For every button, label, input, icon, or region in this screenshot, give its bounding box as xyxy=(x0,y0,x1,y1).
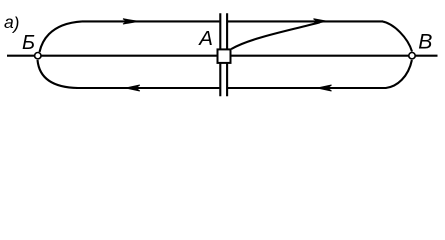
wire: top horizontal conductor, right segment (from right plate) xyxy=(228,20,383,22)
capacitor plate left (vertical bar through figure) xyxy=(219,13,221,96)
arrow: current direction on top conductor (rightward) xyxy=(123,19,139,24)
wire: bottom-left corner arc from node Б down to bottom conductor xyxy=(38,60,79,88)
svg-text:Б: Б xyxy=(22,32,35,54)
wire: middle horizontal conductor from left edge through A to right edge xyxy=(7,55,438,57)
wire: top-right corner arc from top conductor down to node В xyxy=(382,21,412,51)
svg-text:а: а xyxy=(4,12,14,32)
arrow: current direction at end of jumper curve (rightward) xyxy=(314,19,328,24)
node Б terminal circle xyxy=(35,53,41,59)
node В terminal circle xyxy=(409,53,415,59)
svg-text:А: А xyxy=(197,27,213,50)
svg-text:): ) xyxy=(12,13,20,33)
svg-text:В: В xyxy=(418,31,432,54)
arrow: current direction on bottom conductor right (leftward) xyxy=(318,85,332,91)
wire: curved jumper from box A to top conductor xyxy=(231,22,320,49)
arrow: current direction on bottom conductor left (leftward) xyxy=(126,85,140,91)
wire: top-left corner arc from node Б up to top conductor xyxy=(40,21,83,52)
element box at node A (small square) xyxy=(218,49,231,63)
capacitor plate right (vertical bar through figure) xyxy=(226,13,228,96)
wire: bottom horizontal conductor, left segment (ends at left plate) xyxy=(76,87,219,89)
wire: bottom horizontal conductor, right segment (from right plate) xyxy=(228,87,386,89)
wire: bottom-right corner arc from bottom conductor up to node В xyxy=(386,60,412,88)
wire: top horizontal conductor, left segment (ends at left plate) xyxy=(82,20,219,22)
